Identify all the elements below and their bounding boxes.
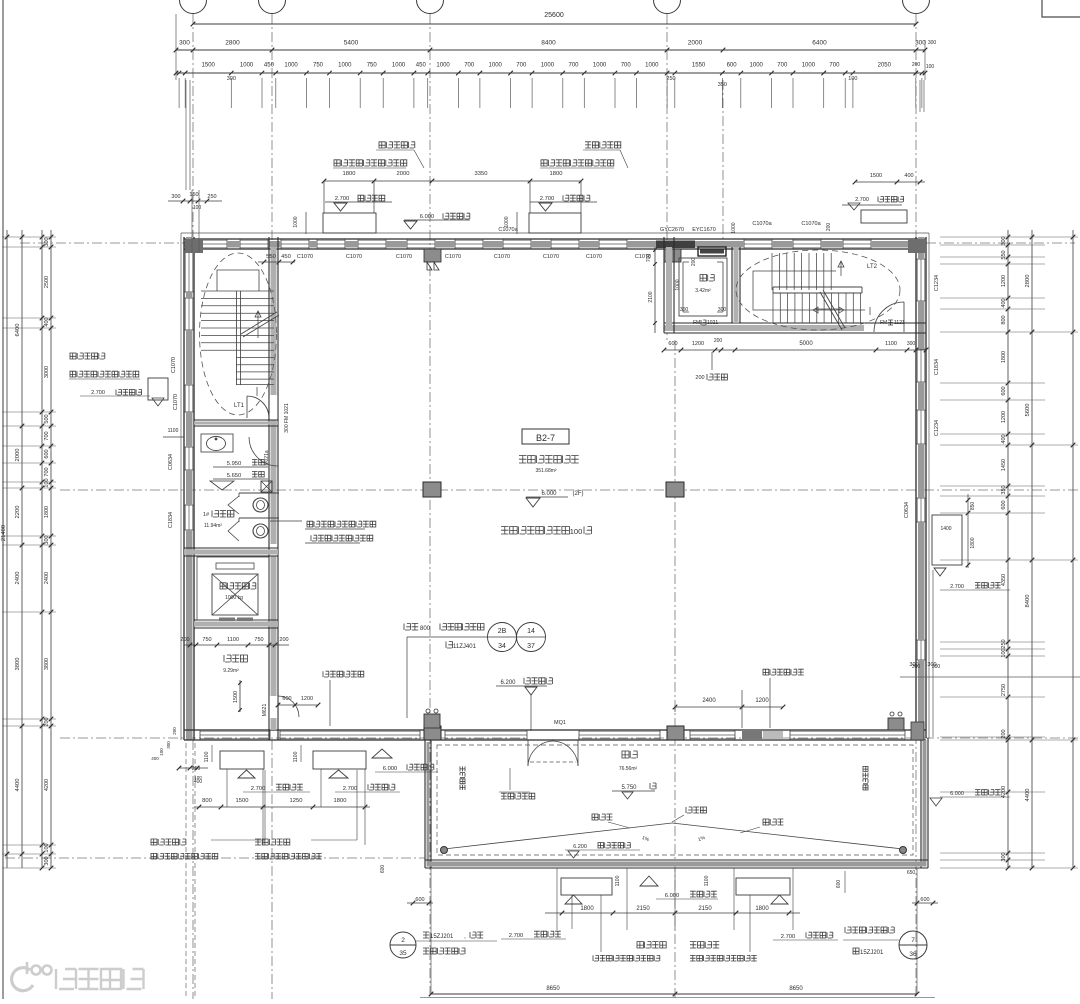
svg-text:1500: 1500	[202, 63, 216, 69]
window C1070 top wall	[551, 239, 579, 241]
svg-text:2100: 2100	[648, 291, 654, 302]
svg-text:250: 250	[207, 194, 216, 200]
svg-text:300: 300	[44, 237, 50, 246]
window band bottom wall	[790, 730, 905, 732]
svg-text:2200: 2200	[15, 506, 21, 519]
svg-text:100: 100	[193, 205, 202, 211]
canopy leader texts top	[379, 142, 415, 148]
room label yanfa shengchan	[519, 456, 579, 464]
svg-text:1200: 1200	[1001, 275, 1007, 287]
svg-text:1500: 1500	[870, 173, 882, 179]
svg-text:700: 700	[44, 467, 50, 476]
svg-text:5000: 5000	[799, 341, 813, 347]
window right wall	[916, 640, 918, 660]
left canopy rect	[148, 378, 168, 400]
svg-text:6.200: 6.200	[573, 844, 587, 850]
svg-text:1000: 1000	[750, 63, 764, 69]
terrace left edge wall	[424, 740, 426, 868]
stall door 1	[228, 496, 239, 514]
page border left	[2, 0, 4, 999]
leader texts steel canopy below terrace	[637, 942, 666, 948]
grid line 3 vertical x=430	[429, 14, 431, 999]
svg-text:1121: 1121	[894, 320, 905, 326]
svg-text:2.700: 2.700	[540, 196, 555, 202]
stair LT2 treads lower run	[772, 293, 774, 323]
grid bubble 5	[903, 0, 930, 14]
svg-text:C1070: C1070	[297, 254, 313, 260]
svg-text:2500: 2500	[44, 276, 50, 288]
window EYC1670 dark sill top wall	[656, 241, 695, 249]
svg-text:5.750: 5.750	[621, 785, 637, 791]
svg-text:300: 300	[680, 307, 689, 313]
fire rescue window marker bottom wall	[742, 731, 762, 739]
svg-text:C1070: C1070	[173, 394, 179, 410]
svg-text:6400: 6400	[812, 40, 827, 47]
svg-text:700: 700	[516, 63, 527, 69]
svg-text:6.000: 6.000	[383, 766, 398, 772]
svg-text:5.950: 5.950	[227, 461, 242, 467]
watermark logo	[12, 968, 33, 991]
svg-text:800: 800	[420, 626, 431, 632]
terrace right edge wall	[920, 738, 922, 868]
svg-text:350: 350	[1001, 485, 1007, 494]
svg-text:1100: 1100	[293, 751, 299, 762]
svg-text:36: 36	[909, 951, 917, 958]
svg-text:1021: 1021	[707, 320, 718, 326]
svg-text:1800: 1800	[970, 537, 976, 548]
bottom exterior wall with curtain glazing	[184, 729, 926, 731]
pier grid3 top wall	[424, 249, 441, 262]
right dim ticks	[940, 236, 1045, 238]
svg-text:600: 600	[727, 63, 738, 69]
svg-text:200: 200	[826, 223, 832, 232]
dim row 200 750 1100 750 200 lobby	[184, 644, 289, 646]
svg-text:25600: 25600	[544, 12, 564, 19]
svg-text:5.650: 5.650	[227, 473, 242, 479]
svg-text:2800: 2800	[1025, 275, 1031, 288]
svg-text:6.000: 6.000	[665, 893, 680, 899]
svg-text:1100: 1100	[168, 428, 179, 434]
svg-text:C1070a: C1070a	[801, 221, 821, 227]
WC fixture 2	[253, 524, 268, 538]
svg-text:LT1: LT1	[234, 403, 245, 409]
svg-text:250: 250	[1001, 639, 1007, 648]
svg-text:600: 600	[380, 865, 386, 874]
grid bubble 1	[180, 0, 207, 14]
elevator lobby wall y=548	[184, 547, 278, 549]
dim 400 250 wing	[179, 767, 208, 769]
elevator car with X	[212, 574, 258, 615]
window right wall	[916, 349, 918, 382]
svg-text:5600: 5600	[1025, 404, 1031, 417]
svg-text:200: 200	[172, 727, 177, 735]
svg-text:600: 600	[1001, 500, 1007, 509]
svg-text:200: 200	[180, 637, 189, 643]
svg-text:1550: 1550	[692, 63, 706, 69]
grid line C horizontal y=738	[60, 737, 1080, 739]
svg-text:C1070: C1070	[396, 254, 412, 260]
stair LT1 top landing rect	[217, 270, 259, 291]
svg-text:3350: 3350	[475, 171, 488, 177]
svg-text:2.700: 2.700	[950, 584, 964, 590]
svg-text:1500: 1500	[236, 798, 249, 804]
elevator bottom wall y=620	[194, 619, 278, 621]
window right wall	[916, 410, 918, 444]
svg-text:4400: 4400	[15, 779, 21, 792]
door arc stair LT1	[247, 396, 269, 418]
terrace inner dashed parapet line	[437, 745, 913, 855]
svg-text:1000: 1000	[504, 216, 510, 227]
window extension lines below top dims	[178, 78, 180, 108]
grid line D horizontal y=858 left wing	[5, 857, 425, 859]
svg-text:8650: 8650	[546, 986, 560, 992]
label elevator	[220, 583, 256, 589]
detail bubble 2/35	[390, 932, 416, 958]
svg-text:C1070: C1070	[543, 254, 559, 260]
svg-text:450: 450	[281, 254, 291, 260]
svg-text:1000 kg: 1000 kg	[225, 595, 243, 601]
svg-text:600: 600	[44, 449, 50, 458]
window left wall	[184, 385, 186, 412]
svg-text:4350: 4350	[1001, 574, 1007, 586]
svg-text:15ZJ201: 15ZJ201	[860, 950, 884, 956]
dimension row detail windows	[176, 72, 925, 74]
svg-text:C1234: C1234	[934, 420, 940, 436]
svg-text:750: 750	[254, 637, 263, 643]
svg-text:250: 250	[666, 76, 675, 82]
svg-text:1250: 1250	[290, 798, 303, 804]
svg-text:750: 750	[202, 637, 211, 643]
svg-text:C1070: C1070	[494, 254, 510, 260]
svg-text:7: 7	[911, 937, 915, 944]
door M621	[270, 696, 278, 718]
svg-text:450: 450	[416, 63, 427, 69]
svg-text:300: 300	[1001, 852, 1007, 861]
svg-text:1#: 1#	[203, 512, 210, 518]
svg-text:100: 100	[194, 775, 202, 780]
stair LT2 inner landing C line	[753, 271, 865, 310]
svg-text:100: 100	[926, 64, 935, 70]
wing partition wall vertical x=269	[268, 237, 270, 740]
window band bottom wall	[280, 730, 420, 732]
terrace drains	[441, 847, 448, 854]
svg-text:800: 800	[202, 798, 212, 804]
window band bottom wall	[200, 730, 270, 732]
shaft divider wall x=732	[731, 247, 733, 323]
svg-text:300: 300	[166, 741, 171, 749]
terrace bottom edge wall	[425, 859, 928, 861]
pier fills top wall	[184, 241, 199, 248]
svg-text:1100: 1100	[204, 751, 210, 762]
svg-text:GYC2670: GYC2670	[660, 227, 684, 233]
svg-text:200: 200	[912, 62, 921, 68]
extension verticals below terrace	[430, 868, 432, 930]
svg-text:6400: 6400	[15, 324, 21, 337]
grid line 4 vertical x=667	[666, 14, 668, 340]
stair LT1 treads full width	[201, 290, 274, 292]
dim row 1800 2150 2150 1800	[545, 912, 800, 914]
svg-text:76.56m²: 76.56m²	[619, 766, 638, 772]
bottom dim 8650 8650	[431, 993, 917, 995]
note shanqiang fanshui	[845, 927, 894, 933]
svg-text:4200: 4200	[44, 779, 50, 791]
svg-text:3000: 3000	[44, 366, 50, 378]
svg-text:FM: FM	[880, 320, 887, 326]
svg-text:850: 850	[970, 502, 976, 511]
dashed wall projection lines below wing	[185, 743, 187, 999]
svg-text:300: 300	[44, 535, 50, 544]
floor drain	[261, 481, 272, 492]
door MQ1	[527, 740, 529, 766]
watermark characters	[56, 969, 144, 989]
drain labels huishuixian fenshuixian	[592, 814, 612, 820]
fire rescue label above	[763, 669, 804, 675]
svg-text:21400: 21400	[1, 525, 7, 541]
stair LT2 dashed ellipse	[736, 250, 900, 330]
window C1070 top wall	[793, 239, 821, 241]
label elevator hall	[224, 655, 247, 662]
svg-text:650: 650	[907, 870, 916, 876]
svg-text:2150: 2150	[636, 906, 650, 912]
svg-text:4400: 4400	[1025, 789, 1031, 802]
svg-text:600: 600	[1001, 386, 1007, 395]
svg-text:800: 800	[1001, 315, 1007, 324]
svg-text:400: 400	[1001, 298, 1007, 307]
svg-text:1000: 1000	[284, 63, 298, 69]
terrace label lutai	[622, 751, 637, 758]
svg-text:200: 200	[691, 258, 697, 267]
svg-text:750: 750	[367, 63, 378, 69]
svg-text:3.42m²: 3.42m²	[695, 288, 711, 294]
window left wall	[184, 447, 186, 470]
svg-text:11.94m²: 11.94m²	[204, 523, 222, 529]
rotated slope note left	[460, 766, 465, 790]
corner pier top-right	[908, 239, 926, 253]
svg-text:600: 600	[668, 341, 677, 347]
svg-text:4200: 4200	[1001, 786, 1007, 798]
svg-text:35: 35	[399, 950, 407, 957]
svg-text:1100: 1100	[885, 341, 897, 347]
elevator door sill segments	[219, 618, 235, 622]
toilet entry door M021a	[249, 437, 278, 466]
svg-text:11ZJ401: 11ZJ401	[453, 644, 477, 650]
svg-text:C1234: C1234	[934, 275, 940, 291]
note can 15ZJ201 yutong	[416, 940, 497, 942]
svg-text:C1070: C1070	[586, 254, 602, 260]
svg-text:15ZJ201: 15ZJ201	[430, 934, 454, 940]
drain marks below grid3 pier	[427, 262, 439, 270]
svg-text:700: 700	[777, 63, 788, 69]
stair LT1 dashed ellipse	[200, 253, 277, 415]
window C1070 top wall	[744, 239, 772, 241]
corner pier top-left	[185, 239, 203, 253]
dim 1500 rotated hall	[239, 680, 241, 712]
svg-text:C1070: C1070	[346, 254, 362, 260]
right dim strip vertical lines	[1007, 230, 1009, 868]
WC fixture 1	[253, 498, 268, 512]
svg-text:300: 300	[171, 194, 180, 200]
svg-text:200: 200	[695, 375, 704, 381]
steel canopy rect top	[323, 213, 376, 233]
svg-text:EYC1670: EYC1670	[692, 227, 716, 233]
window C1070 top wall	[281, 239, 309, 241]
column grid4 center	[666, 482, 684, 497]
dimension row segments 2800 5400 8400 2000 6400	[176, 49, 925, 51]
svg-text:300 FM 1021: 300 FM 1021	[284, 403, 290, 433]
svg-text:100: 100	[570, 527, 583, 536]
svg-text:1400: 1400	[940, 526, 951, 532]
canopy projection line label	[501, 793, 535, 799]
svg-text:300: 300	[179, 40, 190, 47]
svg-text:100: 100	[44, 843, 50, 852]
svg-text:300: 300	[44, 856, 50, 865]
grid bubble 2	[259, 0, 286, 14]
leader toilet note	[270, 520, 302, 522]
right exterior wall	[915, 237, 917, 738]
fire rescue window label left	[323, 671, 364, 677]
svg-text:400: 400	[904, 173, 913, 179]
top exterior wall outer face line	[181, 232, 929, 234]
svg-text:37: 37	[527, 643, 535, 650]
window C1070 top wall	[599, 239, 627, 241]
window C1070 top wall	[503, 239, 531, 241]
svg-text:1100: 1100	[227, 637, 239, 643]
svg-text:2000: 2000	[15, 449, 21, 462]
MQ1 opening break	[528, 732, 578, 739]
threshold label 200 gaomenkan	[711, 352, 713, 370]
svg-text:351.68m²: 351.68m²	[535, 468, 556, 474]
column at grid4 bottom wall	[667, 726, 684, 740]
left canopy leader text	[70, 353, 105, 359]
svg-text:(2F): (2F)	[573, 491, 584, 497]
stair LT2 treads upper run	[771, 253, 773, 290]
svg-text:2: 2	[401, 937, 405, 944]
svg-text:1800: 1800	[580, 906, 594, 912]
dim row below TR stair	[664, 349, 926, 351]
svg-text:200: 200	[714, 338, 723, 344]
svg-text:C1834: C1834	[168, 512, 174, 528]
window left wall	[184, 505, 186, 530]
svg-text:2.700: 2.700	[335, 196, 350, 202]
dim 550 450 stair	[258, 261, 295, 263]
svg-text:1450: 1450	[1001, 459, 1007, 471]
elevator shaft inner face	[197, 557, 269, 620]
svg-text:2150: 2150	[698, 906, 712, 912]
toilet stalls	[239, 492, 279, 494]
svg-text:2050: 2050	[878, 63, 892, 69]
svg-text:250: 250	[192, 766, 201, 772]
bottom edge partial line	[420, 997, 935, 999]
svg-text:5400: 5400	[344, 40, 359, 47]
svg-text:1000: 1000	[240, 63, 254, 69]
window left wall	[184, 298, 186, 330]
svg-text:1000: 1000	[436, 63, 450, 69]
svg-text:600: 600	[836, 880, 842, 889]
svg-text:200: 200	[279, 637, 288, 643]
stair TR room bottom wall	[664, 322, 926, 324]
svg-text:C1070: C1070	[635, 254, 651, 260]
dim row canopies top	[324, 180, 581, 182]
svg-text:1000: 1000	[489, 63, 503, 69]
window left wall	[184, 250, 186, 292]
window C1070 top wall	[317, 239, 345, 241]
stair LT1 up arrow	[257, 312, 259, 338]
dim row wing canopies	[194, 806, 370, 808]
svg-text:1100: 1100	[615, 875, 621, 886]
detail bubble 7/36	[899, 931, 927, 959]
toilet/stair partition wall y=420	[194, 419, 278, 421]
svg-text:C0634: C0634	[168, 454, 174, 470]
dim 600 1200 door	[278, 704, 318, 706]
corner pier bottom-right of hall	[911, 722, 924, 740]
stair LT2 arrows	[840, 262, 842, 276]
svg-text:1000: 1000	[392, 63, 406, 69]
svg-text:600: 600	[282, 696, 291, 702]
stair LT1 break line	[241, 312, 277, 334]
grid line 2 vertical x=272	[271, 14, 273, 240]
svg-text:1800: 1800	[1001, 351, 1007, 363]
svg-text:1000: 1000	[593, 63, 607, 69]
stair LT1 stringer	[236, 291, 238, 385]
svg-text:300: 300	[718, 307, 727, 313]
toilet washbasin counter	[201, 434, 233, 452]
window band bottom wall	[445, 730, 527, 732]
svg-text:6.200: 6.200	[500, 680, 516, 686]
svg-text:M621: M621	[262, 704, 268, 717]
label dianjing	[700, 275, 714, 282]
svg-text:C1834: C1834	[934, 359, 940, 375]
svg-text:C1070a: C1070a	[752, 221, 772, 227]
window right wall	[916, 498, 918, 522]
svg-text:2750: 2750	[1001, 684, 1007, 696]
window C1070 top wall	[358, 239, 386, 241]
dim 1500 400 top right canopy	[855, 181, 925, 183]
steel canopy rect top	[529, 213, 581, 233]
canopy rect below terrace 2	[736, 878, 790, 895]
svg-text:C1070: C1070	[171, 357, 177, 373]
svg-text:1800: 1800	[334, 798, 347, 804]
window band bottom wall	[579, 730, 660, 732]
window C1070 top wall	[240, 239, 268, 241]
EYC1670 dark window box	[698, 247, 726, 256]
left dim ticks	[2, 236, 56, 238]
grid bubble 4	[654, 0, 681, 14]
canopy top-right above wall	[861, 210, 907, 223]
window C1070 top wall	[407, 239, 435, 241]
svg-text:1000: 1000	[541, 63, 555, 69]
svg-text:550: 550	[266, 254, 276, 260]
svg-text:700: 700	[464, 63, 475, 69]
svg-text:1000: 1000	[293, 216, 299, 227]
svg-text:1800: 1800	[755, 906, 769, 912]
window right wall	[916, 259, 918, 301]
window band bottom wall	[690, 730, 735, 732]
svg-text:1000: 1000	[675, 279, 681, 290]
svg-text:1800: 1800	[550, 171, 563, 177]
grid line B horizontal y=490	[60, 489, 1080, 491]
dim rotated 700 2100 left of TR stair	[654, 247, 656, 333]
svg-text:FM: FM	[693, 320, 700, 326]
door FM2 1121 opening	[874, 324, 904, 332]
rain hopper terrace top-right	[888, 718, 904, 730]
svg-text:8400: 8400	[1025, 595, 1031, 608]
svg-text:300: 300	[907, 341, 916, 347]
svg-text:200: 200	[44, 717, 50, 726]
svg-text:100: 100	[44, 478, 50, 487]
svg-text:3800: 3800	[15, 658, 21, 671]
svg-text:400: 400	[44, 317, 50, 326]
svg-text:1200: 1200	[692, 341, 704, 347]
